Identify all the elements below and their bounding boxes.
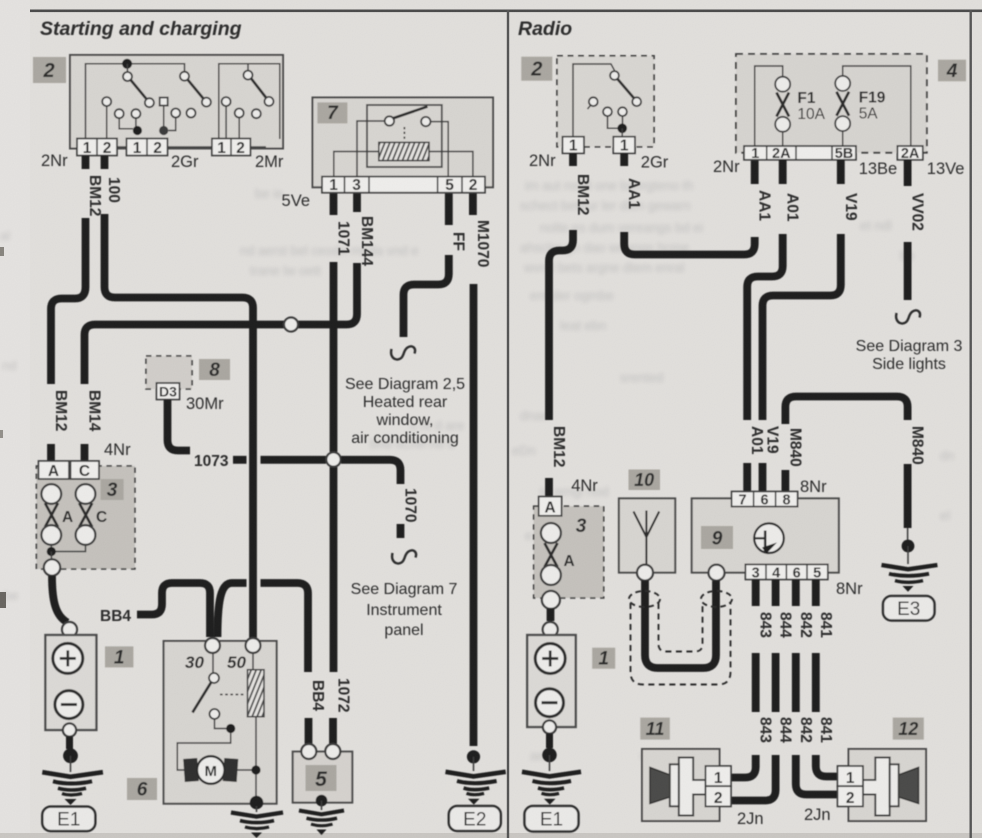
fusebox terminal strip pins 1,2A,5B xyxy=(744,146,856,160)
speaker U11 box xyxy=(642,749,720,821)
node: radio earth pin xyxy=(709,565,725,581)
wire BM12 vertical+jog left xyxy=(51,218,86,384)
wire 1071 stub from relay pin 1 xyxy=(330,193,338,215)
inner right sub-box xyxy=(219,64,280,139)
node: unit 5 pin right xyxy=(325,744,340,759)
pin D3 xyxy=(157,383,180,400)
wire 844 from radio pin 4 xyxy=(772,580,780,607)
label tag 1 xyxy=(592,648,615,669)
label tag 11 xyxy=(640,718,670,740)
wire 842 into speaker 12 pin 2 xyxy=(796,755,838,795)
wire 843 from radio pin 3 xyxy=(752,580,760,607)
label tag 4 xyxy=(938,60,966,82)
break squiggle 1070 xyxy=(392,550,416,563)
wire V19 stub to radio xyxy=(759,463,767,492)
node: pin 50 xyxy=(246,638,261,653)
fuse F1 xyxy=(775,77,790,92)
shield dashed outline inner xyxy=(659,603,703,652)
battery U1 (radio) box xyxy=(527,635,576,727)
antenna symbol xyxy=(634,511,660,566)
label tag 7 xyxy=(317,102,347,123)
wire AA1 stub to fuse pin 1 xyxy=(751,159,759,184)
wire BM144 stub from relay pin 3 xyxy=(353,193,361,212)
wire BB4 with hop to starter pin 30 xyxy=(137,583,210,637)
pin 1 left xyxy=(563,137,585,154)
wire 100 down, right, down to starter pin 50 xyxy=(105,214,254,639)
right page border xyxy=(970,10,972,838)
clock symbol xyxy=(754,523,784,553)
node: connector 1071/1073/1070 xyxy=(326,452,340,466)
wire from connector 3 to battery xyxy=(52,576,68,623)
fuse F19 xyxy=(835,76,850,91)
label tag 10 xyxy=(629,470,661,491)
connector 3 pin A pass-through xyxy=(541,523,561,543)
relay terminal strip pins 1,3,5,2 xyxy=(322,177,485,193)
label tag 3 xyxy=(101,479,124,500)
wire 1073 from D3 xyxy=(168,400,191,451)
wire BM12 jog down to connector 3 xyxy=(549,230,573,420)
wire 841 into speaker 12 pin 1 xyxy=(816,755,838,777)
ignition switch dashed box xyxy=(557,56,654,147)
section divider xyxy=(507,10,509,838)
speaker 12 cone xyxy=(897,768,919,804)
wire BB4 stub to unit 5 xyxy=(305,718,313,744)
break squiggle VV02 xyxy=(896,310,920,323)
wire 843 into speaker pin 1 xyxy=(731,755,756,778)
wire 841 from radio pin 5 xyxy=(812,580,820,607)
node: unit 5 pin left xyxy=(301,744,316,759)
relay actuator dotted link xyxy=(403,127,405,141)
motor M xyxy=(177,733,230,770)
node: pin 30 xyxy=(205,638,220,653)
wire BM14 stub to pin C xyxy=(81,444,89,461)
node: antenna output xyxy=(637,565,653,581)
wire BM12 stub from pin 1 xyxy=(82,156,90,170)
wire to battery xyxy=(547,609,555,622)
wire BM12 stub to pin A xyxy=(47,444,55,461)
shield dashed outline outer xyxy=(631,603,731,685)
strip links xyxy=(117,146,266,148)
relay internal wiring xyxy=(334,121,473,177)
ground symbol under starter xyxy=(256,806,258,812)
wire V19 stub from fuse 5B xyxy=(837,160,845,184)
label tag 2 (ignition switch) xyxy=(33,57,66,83)
wire AA1 stub from switch xyxy=(620,153,628,166)
radio top strip pins 7,6,8 xyxy=(732,492,798,507)
unit 5 ground xyxy=(316,795,328,807)
switch pins xyxy=(589,97,598,106)
speaker 11 cone xyxy=(650,768,672,804)
label tag 1 xyxy=(105,646,133,667)
wire 1070 stub xyxy=(397,524,405,538)
wire 844 into speaker pin 2 xyxy=(731,755,776,801)
antenna U10 box xyxy=(619,498,675,572)
switch contact 3 (right sub-box) xyxy=(244,71,253,80)
wire FF stub from relay pin 5 xyxy=(445,193,453,225)
solenoid switch xyxy=(212,653,214,674)
switch contact 1 xyxy=(123,72,132,81)
battery plus pole xyxy=(535,644,565,674)
fuse internal wiring xyxy=(755,66,911,146)
solenoid coil (hatched) xyxy=(248,670,265,717)
wire 1070 branch right and down xyxy=(341,460,401,484)
terminal strip pair 2Mr pins 1,2 xyxy=(212,139,251,156)
label tag 12 xyxy=(893,718,924,740)
radio bottom strip pins 3,4,6,5 xyxy=(745,564,827,579)
ground symbol E1 xyxy=(42,772,103,777)
wire A01 stub to radio xyxy=(743,463,751,492)
connector 3 dashed grey box (radio) xyxy=(534,506,604,598)
battery minus pole xyxy=(536,689,564,717)
wire BM12 stub xyxy=(569,153,577,166)
node: connector circle below box 3 xyxy=(44,559,60,575)
radio U9 box xyxy=(692,498,839,572)
ground symbol E1 (radio) xyxy=(522,772,581,777)
pin A box xyxy=(539,497,562,516)
wire M1070 long vertical to E2 xyxy=(470,284,478,746)
ground name E2 xyxy=(449,806,501,831)
pin A box xyxy=(39,461,70,479)
node: battery positive terminal xyxy=(62,622,77,637)
label tag 6 xyxy=(127,778,157,800)
node: inline connector on BM14 rail xyxy=(284,318,298,332)
starter U6 box xyxy=(164,641,277,804)
right sub-box pins xyxy=(222,97,231,106)
speaker U12 box xyxy=(849,749,927,821)
terminal strip pair 2Nr pins 1,2 xyxy=(77,139,117,156)
bleed-through ghost text xyxy=(0,178,954,763)
node: feed dot on top rail xyxy=(122,59,132,69)
break squiggle FF xyxy=(391,346,415,359)
label tag 9 xyxy=(701,526,733,549)
wire 842 from radio pin 6 xyxy=(792,580,800,607)
wire 100 stub from pin 2 xyxy=(101,156,109,170)
battery negative terminal xyxy=(63,723,76,736)
M1070 to ground E2 xyxy=(467,750,480,763)
label tag 8 xyxy=(199,359,230,380)
fusebox pin 2A right xyxy=(897,146,922,160)
battery plus pole xyxy=(53,643,83,673)
ground name E3 xyxy=(883,596,935,621)
wire 1072 below junction xyxy=(330,467,338,672)
junction below connector 3 xyxy=(51,545,85,552)
wire VV02 stub from fuse 2A xyxy=(904,160,912,186)
connector 3 dashed grey box xyxy=(36,466,134,569)
switch contact 2 xyxy=(180,72,189,81)
ignition switch box U2 xyxy=(70,55,283,149)
wire A01 jog down to radio pin 7 xyxy=(747,234,783,420)
wire BM14 horizontal rail + up to BM144 xyxy=(85,263,358,384)
speaker 11 driver xyxy=(679,758,706,816)
scan artifacts left edge xyxy=(0,592,6,608)
unit 8 dashed box xyxy=(146,356,192,389)
left sub-box pins xyxy=(102,97,111,106)
connector 3 pin A pass-through xyxy=(41,484,61,504)
wire VV02 to break xyxy=(904,242,912,300)
node: battery positive terminal xyxy=(543,622,558,637)
relay coil (hatched) xyxy=(379,142,429,160)
wire FF jog to break xyxy=(404,255,449,337)
ground name E1 xyxy=(42,807,95,832)
speaker 12 pin 2 xyxy=(838,786,864,806)
wire to ground xyxy=(546,734,553,749)
wire V19 jog down to radio pin 6 xyxy=(763,234,841,420)
wire 1071 vertical xyxy=(330,262,338,452)
label tag 5 xyxy=(306,765,337,791)
wire 1073 rail xyxy=(233,456,326,464)
terminal strip pair 2Gr pins 1,2 xyxy=(127,139,168,156)
speaker 12 pin 1 xyxy=(838,766,864,786)
battery U1 box xyxy=(45,635,96,730)
pin 1 right xyxy=(613,137,635,154)
wire BM12 stub to pin A xyxy=(545,478,553,497)
switch internal wiring xyxy=(573,64,615,137)
connector 3 pin C pass-through xyxy=(76,484,96,504)
ground symbol E2 xyxy=(446,772,506,777)
label tag 2 (radio ignition switch) xyxy=(521,57,552,81)
shielded aerial lead U-loop xyxy=(645,581,716,668)
wire rail from pin 30 to unit 5 xyxy=(218,583,309,672)
node: connector circle below xyxy=(542,591,560,609)
fusebox U4 dashed box xyxy=(736,54,927,153)
wire AA1 rail to fusebox xyxy=(624,232,755,255)
wire M840 stub to ground xyxy=(904,464,912,528)
wire A01 stub from fuse 2A xyxy=(779,160,787,184)
wire 1072 stub to unit 5 xyxy=(329,718,337,744)
wire battery to ground xyxy=(66,737,73,750)
relay switch contacts xyxy=(385,116,394,125)
unit 5 box xyxy=(293,752,353,803)
inner left sub-box xyxy=(86,64,185,139)
ground name E1 (radio) xyxy=(525,806,579,832)
speaker 11 pin 1 xyxy=(706,766,732,786)
switch contact xyxy=(610,71,619,80)
top border line xyxy=(30,10,982,13)
relay box U7 xyxy=(313,98,494,188)
relay inner box xyxy=(367,105,442,167)
battery minus pole xyxy=(55,691,83,719)
ground E3 xyxy=(902,540,915,553)
speaker 11 pin 2 xyxy=(706,786,732,806)
wire M840 from radio pin 8 up and over to E3 xyxy=(782,470,790,492)
wire M1070 stub from relay pin 2 xyxy=(469,193,477,215)
speaker 12 driver xyxy=(863,758,890,816)
battery negative terminal xyxy=(543,720,556,733)
pin C box xyxy=(71,461,100,479)
shield collars xyxy=(629,591,660,607)
